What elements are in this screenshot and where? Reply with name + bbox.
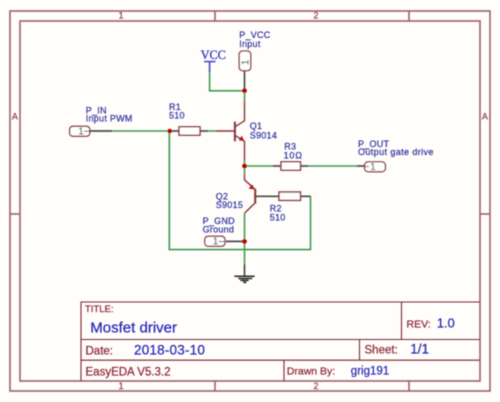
svg-text:Output gate drive: Output gate drive: [358, 147, 434, 157]
svg-text:Date:: Date:: [86, 345, 114, 357]
svg-text:Input PWM: Input PWM: [86, 114, 133, 124]
svg-text:1: 1: [241, 59, 252, 65]
svg-text:510: 510: [270, 213, 286, 223]
svg-text:Ground: Ground: [203, 225, 235, 235]
svg-text:REV:: REV:: [407, 319, 431, 331]
svg-text:Drawn By:: Drawn By:: [287, 365, 335, 377]
svg-text:EasyEDA V5.3.2: EasyEDA V5.3.2: [86, 367, 171, 379]
svg-text:TITLE:: TITLE:: [85, 304, 114, 315]
svg-text:VCC: VCC: [201, 48, 226, 62]
svg-text:2018-03-10: 2018-03-10: [134, 343, 205, 358]
svg-text:Sheet:: Sheet:: [365, 344, 398, 356]
svg-text:grig191: grig191: [351, 366, 389, 378]
svg-text:510: 510: [169, 110, 185, 120]
svg-text:S9014: S9014: [250, 131, 277, 141]
svg-text:1.0: 1.0: [437, 316, 455, 331]
svg-text:S9015: S9015: [216, 200, 243, 210]
svg-text:Q1: Q1: [250, 121, 263, 131]
svg-text:1: 1: [118, 11, 123, 21]
svg-text:1/1: 1/1: [410, 341, 429, 356]
svg-text:A: A: [482, 112, 488, 122]
svg-text:1: 1: [370, 162, 376, 173]
svg-text:A: A: [12, 112, 18, 122]
svg-text:10Ω: 10Ω: [284, 151, 303, 161]
svg-text:Input: Input: [239, 39, 261, 49]
svg-text:2: 2: [313, 11, 318, 21]
svg-text:1: 1: [118, 381, 123, 391]
svg-text:1: 1: [213, 237, 219, 248]
svg-text:Mosfet driver: Mosfet driver: [90, 319, 177, 336]
svg-text:1: 1: [78, 127, 84, 138]
svg-text:2: 2: [313, 381, 318, 391]
